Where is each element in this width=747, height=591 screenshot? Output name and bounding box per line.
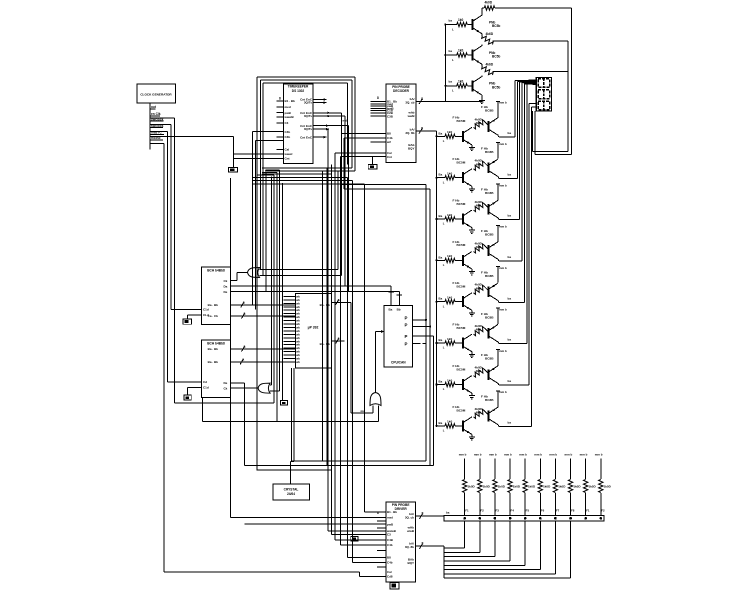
svg-text:De: De — [224, 290, 228, 294]
svg-text:BC5M: BC5M — [457, 409, 466, 413]
svg-text:B8: B8 — [387, 555, 391, 559]
svg-text:wb: wb — [296, 339, 300, 343]
wire loop around U1 outer — [257, 76, 355, 78]
wire column 3 below connector — [494, 521, 496, 557]
svg-text:Ca . Cb: Ca . Cb — [208, 314, 219, 318]
svg-text:Ba . Bb: Ba . Bb — [208, 347, 219, 351]
wire Q27 emitter power stub — [496, 365, 499, 368]
wire U4 De to gate3 — [230, 382, 244, 384]
svg-text:Ba: Ba — [439, 255, 443, 259]
wire U4 De loop down to U8 — [245, 523, 386, 525]
transistor Q18 NPN — [462, 420, 464, 431]
wire G1 output to U3 Ck — [237, 272, 248, 274]
svg-text:1k0: 1k0 — [447, 420, 452, 424]
svg-text:1k0D: 1k0D — [543, 484, 551, 488]
svg-text:1k0: 1k0 — [447, 254, 452, 258]
svg-text:1k0: 1k0 — [447, 337, 452, 341]
wire column 1 below connector — [464, 521, 466, 548]
wire U3 left pin Cd — [188, 314, 202, 316]
wire comb row 4 — [444, 560, 510, 562]
IC U8 pin probe driver box — [386, 502, 416, 582]
IC U2 left pin — [370, 137, 386, 139]
IC U1 left pin — [277, 100, 284, 102]
IC U1 left pin — [277, 153, 284, 155]
IC U1 left pin — [277, 106, 284, 108]
svg-text:P: P — [405, 342, 408, 347]
svg-text:mm b: mm b — [534, 452, 542, 456]
wire long bottom row — [164, 571, 360, 573]
wire column 4 below connector — [509, 521, 511, 561]
wire U3 Da to CPLD top pin 1 — [230, 285, 391, 287]
svg-text:BQY: BQY — [408, 147, 415, 151]
svg-text:Ck: Ck — [224, 386, 228, 390]
svg-text:C1d: C1d — [203, 307, 209, 311]
bus to segment drivers — [436, 131, 438, 426]
wire loop C — [331, 164, 333, 470]
transistor Q28 PNP — [487, 411, 489, 422]
diagonal resistor R44 4k7 — [474, 244, 485, 253]
svg-text:wwwB: wwwB — [284, 115, 295, 119]
wire column 3 stub — [494, 459, 496, 480]
wire column 1 stub — [464, 459, 466, 480]
wire comb row 2 — [444, 551, 480, 553]
wire stage 1 emitter rail — [493, 40, 569, 42]
bus to digit drivers — [444, 25, 446, 102]
transistor Q27 PNP — [487, 369, 489, 380]
IC U1 right pin — [313, 136, 327, 138]
IC U1 left pin — [277, 112, 284, 114]
clock signal stub masTC — [150, 134, 164, 136]
IC U1 left pin — [277, 140, 284, 142]
wire Q1 emitter down — [481, 34, 483, 36]
resistor R11 base 1k0 — [457, 22, 468, 26]
svg-text:L: L — [452, 89, 454, 93]
resistor R36 1k0 — [445, 341, 455, 345]
svg-text:BC5M: BC5M — [457, 161, 466, 165]
IC U2 left pin — [370, 112, 386, 114]
transistor Q26 PNP — [487, 328, 489, 339]
wire column 8 below connector — [570, 521, 572, 578]
svg-text:md: md — [343, 119, 348, 123]
svg-text:CPU/CAN: CPU/CAN — [391, 360, 406, 364]
transistor Q3 PNP BC556 — [472, 80, 474, 91]
svg-text:1k0D: 1k0D — [513, 484, 521, 488]
svg-text:ba: ba — [449, 18, 453, 22]
svg-text:ba: ba — [508, 255, 512, 259]
svg-text:BC8B: BC8B — [485, 233, 494, 237]
svg-text:mm b: mm b — [499, 307, 507, 311]
wire column 7 below connector — [554, 521, 556, 574]
IC U6 microcontroller box — [295, 293, 331, 368]
diagonal resistor R45 4k7 — [474, 285, 485, 294]
wire comb row 6 — [444, 569, 540, 571]
resistor R510 1k0 — [599, 480, 603, 493]
resistor R12 base 1k0 — [457, 53, 468, 57]
svg-text:mm b: mm b — [499, 390, 507, 394]
svg-text:C4B: C4B — [387, 538, 393, 542]
svg-text:4kV: 4kV — [476, 204, 482, 208]
IC U2 left pin — [370, 115, 386, 117]
svg-text:Bb: Bb — [397, 308, 401, 312]
svg-text:a: a — [244, 312, 246, 316]
svg-text:wb: wb — [296, 353, 300, 357]
svg-text:L: L — [443, 180, 445, 184]
wire stage 3 output to column — [497, 218, 500, 220]
svg-text:ba: ba — [508, 214, 512, 218]
wire clock stub column — [149, 103, 151, 149]
svg-text:wb: wb — [296, 319, 300, 323]
svg-text:BC5M: BC5M — [457, 243, 466, 247]
svg-text:3Q/Ts: 3Q/Ts — [304, 127, 312, 131]
svg-text:ba: ba — [449, 80, 453, 84]
svg-text:Cd: Cd — [203, 380, 207, 384]
svg-text:1k0D: 1k0D — [498, 484, 506, 488]
svg-text:BC5M: BC5M — [457, 326, 466, 330]
svg-text:mm b: mm b — [499, 142, 507, 146]
transistor Q17 NPN — [462, 379, 464, 390]
svg-text:mm b: mm b — [474, 452, 482, 456]
svg-text:F8: F8 — [571, 509, 575, 513]
wire Q24 emitter power stub — [496, 240, 499, 243]
wire Q11 emitter to ground — [471, 145, 473, 147]
diagonal resistor R46 4k7 — [474, 327, 485, 336]
wire column 1 to connector — [464, 493, 466, 516]
wire G3 input 1 — [372, 406, 374, 414]
wire comb row 5 — [444, 564, 525, 566]
wire Q3 collector — [481, 75, 483, 77]
IC U2 left pin — [370, 141, 386, 143]
wire comb row 1 — [444, 547, 465, 549]
svg-text:De: De — [224, 381, 228, 385]
clock signal stub out — [150, 108, 156, 110]
svg-text:Ba: Ba — [439, 214, 443, 218]
diagonal resistor R47 4k7 — [474, 368, 485, 377]
svg-text:F3: F3 — [495, 509, 499, 513]
svg-text:3Q. cb: 3Q. cb — [405, 101, 414, 105]
bus U4 B out upper — [230, 348, 295, 350]
wire U4 vertical — [244, 383, 246, 465]
wire merge wedge into display — [521, 79, 537, 85]
svg-text:BCH b4Bb8: BCH b4Bb8 — [207, 269, 225, 273]
svg-text:1k0D: 1k0D — [573, 484, 581, 488]
wire bundle mid verticals — [271, 177, 273, 386]
wire Q1 collector — [481, 14, 483, 16]
wire G3 out to CPLD left pin — [375, 332, 377, 393]
svg-text:C4b: C4b — [387, 543, 393, 547]
svg-text:DECODER: DECODER — [393, 89, 410, 93]
svg-text:1k0: 1k0 — [447, 172, 452, 176]
U8 extra pin stubs — [377, 520, 386, 522]
svg-text:C3: C3 — [387, 533, 391, 537]
wire Q12 emitter to ground — [471, 186, 473, 188]
svg-text:3Q. 8b: 3Q. 8b — [405, 131, 414, 135]
svg-text:pwB: pwB — [387, 522, 393, 526]
svg-text:mm b: mm b — [499, 266, 507, 270]
svg-text:ba: ba — [508, 338, 512, 342]
svg-text:CLd: CLd — [203, 313, 209, 317]
clock signal stub swclock — [150, 120, 164, 122]
wire column 8 stub — [570, 459, 572, 480]
wire column 6 stub — [539, 459, 541, 480]
svg-text:mm b: mm b — [459, 452, 467, 456]
svg-text:B1 . Bb: B1 . Bb — [285, 99, 296, 103]
svg-text:4kV: 4kV — [476, 245, 482, 249]
wire U4 left pin from clock bus — [168, 381, 202, 383]
wire clock to bus bend 3 — [150, 130, 168, 132]
svg-text:wwB: wwB — [406, 529, 415, 533]
svg-text:Ba: Ba — [439, 173, 443, 177]
wire column 10 to connector — [600, 493, 602, 516]
wire clock long right to flag — [150, 136, 234, 138]
svg-text:Cnt EnC: Cnt EnC — [300, 135, 313, 139]
wire segment column 1 — [514, 81, 516, 137]
transistor Q14 NPN — [462, 255, 464, 266]
resistor R51 1k0 — [463, 480, 467, 493]
diagonal resistor R43 4k7 — [474, 203, 485, 212]
clock generator box U5 — [137, 84, 176, 103]
svg-text:BC5M: BC5M — [457, 119, 466, 123]
svg-text:Cal: Cal — [387, 570, 392, 574]
svg-text:3Q. cb: 3Q. cb — [405, 515, 414, 519]
transistor Q16 NPN — [462, 338, 464, 349]
svg-text:Ba: Ba — [439, 338, 443, 342]
net flag U4 left — [184, 395, 191, 400]
wire Q22 emitter power stub — [496, 158, 499, 161]
svg-text:1k0: 1k0 — [458, 79, 464, 83]
svg-text:C4b: C4b — [387, 561, 393, 565]
IC U1 right pin — [313, 115, 330, 117]
svg-text:a: a — [244, 345, 246, 349]
svg-text:med: med — [387, 516, 393, 520]
wire stage 5 output to column — [497, 301, 500, 303]
segment driver stage 3 input — [435, 218, 437, 220]
svg-text:L: L — [443, 222, 445, 226]
IC U6 left pin comb — [284, 295, 296, 297]
svg-text:mm b: mm b — [565, 452, 573, 456]
net flag mid bundle — [351, 536, 358, 541]
svg-text:1k0D: 1k0D — [558, 484, 566, 488]
wire Q2 emitter down — [481, 64, 483, 66]
IC U2 decoder box — [386, 84, 416, 162]
svg-text:BC5M: BC5M — [457, 202, 466, 206]
svg-text:ba: ba — [508, 172, 512, 176]
wire loop A — [322, 171, 324, 461]
wire Q21 emitter power stub — [496, 116, 499, 119]
wire Q3 emitter down — [481, 95, 483, 97]
bus U8 right upper — [416, 515, 444, 517]
transistor Q22 PNP — [487, 163, 489, 174]
svg-text:4kV: 4kV — [476, 410, 482, 414]
wire bundle top bends — [266, 169, 280, 171]
wire stage 6 output to column — [497, 342, 500, 344]
svg-text:Ba: Ba — [439, 421, 443, 425]
svg-text:Cnt: Cnt — [387, 155, 392, 159]
svg-text:wb: wb — [296, 315, 300, 319]
svg-text:1k0: 1k0 — [447, 378, 452, 382]
IC U1 timekeeper box — [284, 84, 314, 164]
IC U2 left pin — [370, 103, 386, 105]
clock signal stub mclhb — [150, 139, 163, 141]
svg-text:wb: wb — [296, 294, 300, 298]
svg-text:L: L — [443, 428, 445, 432]
wire CPLD right pins — [412, 319, 426, 321]
bus U4 B out lower — [230, 361, 295, 363]
IC U1 right pin — [313, 99, 327, 101]
svg-text:ba: ba — [508, 131, 512, 135]
resistor R57 1k0 — [553, 480, 557, 493]
svg-text:8: 8 — [422, 542, 424, 546]
svg-text:4kV: 4kV — [476, 162, 482, 166]
svg-text:L: L — [452, 27, 454, 31]
svg-text:1k0: 1k0 — [458, 49, 464, 53]
svg-text:a: a — [242, 357, 244, 361]
svg-text:BC8B: BC8B — [485, 398, 494, 402]
IC U1 right pin — [313, 102, 327, 104]
svg-text:F6: F6 — [541, 509, 545, 513]
diagonal resistor R48 4k7 — [474, 409, 485, 418]
transistor Q2 PNP BC556 — [472, 50, 474, 61]
svg-text:B1 . Bb: B1 . Bb — [387, 510, 397, 514]
wire Q14 emitter to ground — [471, 269, 473, 271]
net flag U3 left — [183, 319, 191, 324]
svg-text:mm b: mm b — [499, 183, 507, 187]
svg-text:3Q/Ts: 3Q/Ts — [304, 114, 312, 118]
resistor R31 1k0 — [445, 134, 455, 138]
wire U6 bus down to G3 — [350, 302, 352, 413]
wire top IC area links — [252, 132, 254, 305]
wire mid bend rows — [262, 173, 332, 175]
wire decoder pin links — [335, 152, 370, 154]
wire stage 7 output to column — [497, 384, 500, 386]
svg-text:wb: wb — [296, 343, 300, 347]
wire U4 Ck to G2 — [230, 387, 258, 389]
wire stage 2 output to column — [497, 177, 500, 179]
svg-text:med: med — [285, 105, 291, 109]
wire digit rail right 2 — [567, 41, 569, 152]
svg-text:ba: ba — [508, 296, 512, 300]
svg-text:DS 1302: DS 1302 — [292, 89, 305, 93]
svg-text:4kV: 4kV — [476, 121, 482, 125]
svg-text:wb: wb — [296, 308, 300, 312]
svg-text:a: a — [338, 298, 340, 302]
svg-text:F5: F5 — [526, 509, 530, 513]
IC U1 left pin — [277, 122, 284, 124]
svg-text:mm b: mm b — [499, 225, 507, 229]
svg-text:BC5b: BC5b — [492, 24, 500, 28]
svg-text:Ck: Ck — [224, 279, 228, 283]
wire Q25 emitter power stub — [496, 282, 499, 285]
bus U8 right lower — [416, 545, 444, 547]
svg-text:F7: F7 — [556, 509, 560, 513]
segment driver stage 8 input — [435, 425, 437, 427]
svg-text:F4: F4 — [511, 509, 515, 513]
IC U2 lower output bus — [416, 130, 437, 132]
wire column 3 to connector — [494, 493, 496, 516]
wire clock to bus bend 4 — [150, 142, 164, 144]
svg-text:1k0: 1k0 — [447, 213, 452, 217]
bus U3 B out — [230, 304, 295, 306]
wire segment column 3 — [519, 82, 521, 220]
wire column 6 to connector — [539, 493, 541, 516]
wire segment column 2 — [516, 81, 518, 178]
svg-text:ba: ba — [508, 420, 512, 424]
IC U1 right pin — [313, 112, 330, 114]
IC U2 left pin — [370, 110, 386, 112]
digit driver stage 1 input wire — [444, 23, 446, 25]
svg-text:1k0: 1k0 — [447, 296, 452, 300]
svg-text:8: 8 — [421, 97, 423, 101]
wire column 9 to connector — [585, 493, 587, 516]
wire stage1 collector to top resistor — [481, 8, 483, 14]
wire flag row — [175, 402, 275, 404]
svg-text:3Q. 8b: 3Q. 8b — [405, 545, 414, 549]
wire column 2 to connector — [479, 493, 481, 516]
transistor Q23 PNP — [487, 204, 489, 215]
svg-text:w2: w2 — [386, 140, 391, 144]
wire Q23 emitter power stub — [496, 199, 499, 202]
svg-text:BQY: BQY — [407, 561, 414, 565]
IC U1 left pin — [277, 136, 284, 138]
wire Q28 emitter power stub — [496, 406, 499, 409]
svg-text:1k0D: 1k0D — [528, 484, 536, 488]
IC U4 BCD counter box — [202, 340, 231, 398]
bus U6 right lower — [331, 340, 344, 342]
bus U3 C out — [230, 315, 295, 317]
svg-text:wb: wb — [296, 346, 300, 350]
wire long row from left loop — [230, 517, 386, 519]
svg-text:wb: wb — [296, 329, 300, 333]
svg-text:F2: F2 — [601, 509, 605, 513]
svg-text:4kV: 4kV — [476, 286, 482, 290]
wire comb row 8 — [444, 577, 571, 579]
wire column 9 stub — [585, 459, 587, 480]
svg-text:BC8B: BC8B — [485, 274, 494, 278]
svg-text:4k6D: 4k6D — [486, 32, 494, 36]
svg-text:L: L — [443, 346, 445, 350]
svg-text:wb: wb — [296, 312, 300, 316]
transistor Q1 PNP BC556 — [472, 19, 474, 30]
wire loop around U1 inner — [263, 82, 347, 84]
svg-text:ba: ba — [508, 379, 512, 383]
svg-text:mm b: mm b — [549, 452, 557, 456]
svg-text:wwwr: wwwr — [284, 152, 294, 156]
resistor R35 1k0 — [445, 300, 455, 304]
wire segment column 6 — [526, 84, 528, 344]
svg-text:wb: wb — [296, 360, 300, 364]
svg-text:mm b: mm b — [504, 452, 512, 456]
svg-text:C3: C3 — [285, 121, 289, 125]
resistor R52 1k0 — [478, 480, 482, 493]
diagonal resistor R22 — [482, 66, 493, 75]
svg-text:Ba: Ba — [439, 297, 443, 301]
svg-text:L: L — [443, 387, 445, 391]
net flag GND near top IC — [229, 167, 238, 172]
ground stage 1 — [471, 145, 473, 148]
wire column 7 to connector — [554, 493, 556, 516]
svg-text:B8: B8 — [387, 132, 391, 136]
net flag below U8 — [390, 583, 399, 590]
display DS1 3-digit 7seg box — [536, 77, 551, 111]
svg-text:1k0D: 1k0D — [468, 484, 476, 488]
transistor Q12 NPN — [462, 172, 464, 183]
wire Q26 emitter power stub — [496, 323, 499, 326]
IC U2 left pin — [370, 107, 386, 109]
IC U1 left pin — [277, 131, 284, 133]
ground stage 2 — [471, 186, 473, 189]
wire column 4 to connector — [509, 493, 511, 516]
svg-text:L: L — [443, 304, 445, 308]
svg-text:BC5M: BC5M — [457, 285, 466, 289]
